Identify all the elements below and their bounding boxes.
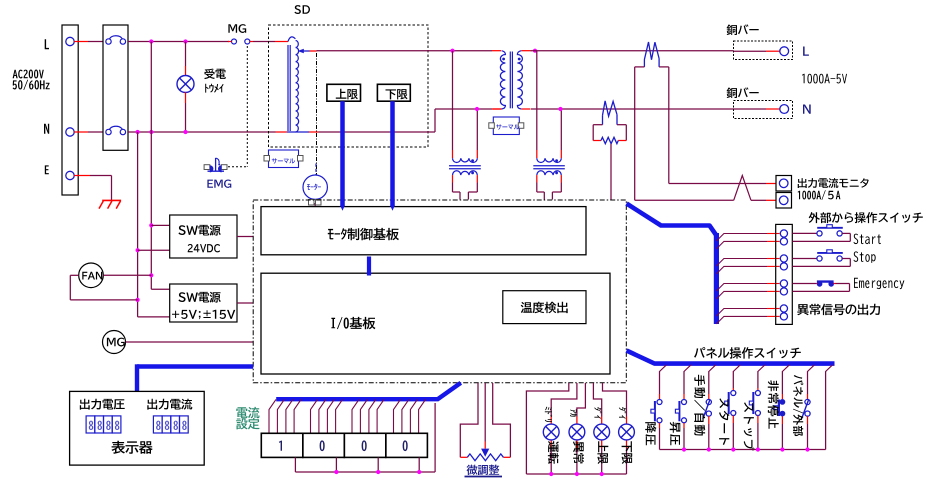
wire pot right	[493, 383, 511, 457]
wire PS2 output	[237, 302, 253, 304]
motor モーター	[303, 175, 327, 199]
node N junction B	[149, 130, 153, 134]
wire monitor upper	[669, 183, 766, 185]
node wiper-PT1	[450, 49, 454, 53]
wire vertical A from N bus	[137, 132, 139, 317]
panel common bus	[660, 449, 826, 451]
digit switch box 4	[386, 433, 428, 457]
control unit dashdot enclosure	[253, 200, 626, 383]
bus IO to digit switches	[276, 383, 461, 399]
wire pot left	[460, 383, 478, 457]
wire shunt tap to IO	[610, 144, 612, 200]
label Stop	[854, 251, 876, 263]
thermal サーマル at SD	[269, 150, 299, 168]
PT1 core	[449, 165, 481, 167]
switch ストップ	[757, 372, 759, 389]
wire N terminal to breaker	[74, 131, 88, 133]
wire FAN loop	[136, 298, 140, 302]
PT1 primary winding	[453, 158, 478, 162]
wire N out	[531, 108, 734, 110]
digit switch group wires	[269, 399, 276, 433]
copper bar terminal N	[734, 101, 793, 119]
switch パネル/外部	[807, 372, 809, 395]
signal arrow 上限 to control board	[340, 101, 345, 206]
potentiometer 微調整	[467, 454, 503, 461]
wire PS1 output	[237, 236, 253, 238]
digit switch common wires	[294, 457, 296, 472]
node wiper-PT2	[533, 49, 537, 53]
label ストップ	[744, 402, 755, 450]
label 外部から操作スイッチ	[809, 212, 923, 223]
wire E terminal to ground	[74, 175, 90, 177]
label L output	[803, 47, 809, 56]
wire F1 left leg to monitor	[634, 67, 636, 200]
lamp PL1 受電	[185, 42, 187, 67]
wire vertical B from L bus	[150, 42, 152, 290]
voltage transformer PT1 left leg	[452, 51, 454, 150]
interlock dotted link MG-EMG	[246, 46, 248, 167]
digit display 出力電流	[153, 416, 162, 433]
digit display 出力電圧	[86, 416, 95, 433]
label 微調整	[467, 465, 500, 476]
wire B to SW1 input	[149, 223, 153, 227]
transformer T1 primary	[500, 51, 505, 109]
ground E	[102, 199, 121, 201]
bus motor-IO	[367, 257, 371, 276]
label 受電	[204, 69, 226, 80]
PT1 secondary winding	[453, 171, 478, 175]
contact MG	[232, 39, 237, 44]
switch EMG	[204, 165, 210, 170]
wire N jog	[322, 131, 435, 133]
transformer T1 core	[509, 52, 511, 109]
lamp PL4 上限	[594, 424, 610, 440]
variac wiper arrow	[298, 49, 304, 54]
wire L terminal to breaker	[74, 41, 88, 43]
wire L bus breaker to MG contact	[128, 41, 229, 43]
wire MG coil to IO	[126, 341, 254, 343]
variac winding SD	[287, 45, 289, 131]
wire N bus breaker to SD	[128, 131, 276, 133]
label トウメイ	[205, 84, 223, 93]
label N output	[803, 105, 811, 114]
label 昇圧	[670, 422, 681, 445]
lamp PL2 運転	[543, 424, 559, 440]
digit switch box 3	[344, 433, 386, 457]
connector block external	[776, 224, 793, 324]
terminal E	[66, 171, 74, 179]
label 1000A-5V	[802, 74, 847, 84]
limit box 下限	[377, 84, 410, 101]
bus IO to panel switches	[627, 351, 835, 364]
switch Start	[792, 232, 817, 234]
PT2 right leg	[560, 109, 562, 150]
connector wires external	[716, 234, 767, 242]
breaker CB1	[103, 25, 128, 150]
label 表示器	[112, 441, 153, 454]
power supply PS2 SW電源 +5V ±15V	[170, 284, 237, 322]
shunt resistor R1	[593, 140, 601, 142]
crossover symbol	[734, 176, 751, 201]
PT2 primary winding	[537, 158, 562, 162]
terminal block TB1	[62, 25, 78, 195]
PT1 secondary leads	[452, 175, 454, 182]
PT2 secondary leads	[536, 175, 538, 182]
label 銅バー L	[727, 24, 759, 35]
PT2 core	[533, 165, 565, 167]
label Emergency	[854, 278, 904, 289]
switch Emergency	[792, 283, 816, 285]
label 異常信号の出力	[797, 304, 880, 316]
label 出力電圧	[80, 399, 125, 410]
label E	[45, 165, 49, 174]
breaker F2 on N output	[603, 101, 618, 116]
lamp bottoms to common	[550, 440, 552, 448]
label AC200V 50/60Hz	[13, 70, 44, 79]
PT2 secondary winding	[537, 171, 562, 175]
transformer SD dashed box	[269, 25, 429, 147]
power supply PS1 SW電源 24VDC	[170, 215, 237, 258]
display unit 表示器	[70, 391, 205, 465]
wire F1 right leg to monitor	[668, 67, 670, 184]
switch Stop	[792, 258, 817, 260]
wire FAN right	[149, 273, 153, 277]
switch 手動/自動	[708, 372, 710, 395]
label Start	[854, 234, 882, 245]
breaker contact N pole	[106, 129, 111, 134]
wire wiper output to T1	[317, 50, 493, 52]
node N junction A	[136, 130, 140, 134]
breaker F1 on L output	[644, 42, 659, 60]
wire MG contact to SD	[253, 41, 275, 43]
switch 降圧	[659, 372, 661, 395]
label 非常停止	[768, 380, 779, 429]
node PT1-N	[475, 107, 479, 111]
label 運転	[548, 441, 559, 464]
wire T1 secondary top	[521, 50, 530, 52]
pcb 温度検出	[503, 291, 586, 324]
label パネル/外部	[793, 375, 803, 436]
mech link motor dashdot	[316, 53, 318, 176]
wire T1 bottom stubs	[493, 108, 502, 110]
label 銅バー N	[727, 87, 759, 98]
label パネル操作スイッチ	[694, 347, 801, 359]
label 出力電流	[147, 399, 192, 410]
wire monitor lower	[635, 199, 734, 201]
wire pot wiper	[484, 383, 486, 442]
label MG	[228, 24, 246, 33]
panel switch branch wires	[660, 365, 667, 372]
switch スタート	[732, 372, 734, 389]
label ダイ2	[619, 407, 626, 419]
bus IO to external connector	[627, 204, 717, 236]
digit switch box 1	[261, 433, 303, 457]
label SD	[294, 5, 310, 14]
label 手動/自動	[694, 375, 705, 436]
bus IO to display	[137, 364, 253, 368]
label 異常	[573, 441, 584, 463]
label N	[44, 124, 49, 134]
lamp PL5 下限	[619, 424, 635, 440]
label スタート	[719, 398, 729, 445]
lamp PL3 異常	[569, 424, 585, 440]
terminal monitor 1	[776, 176, 792, 192]
lamp common bus	[526, 473, 626, 475]
label 電流設定	[236, 407, 259, 419]
label L	[45, 39, 49, 49]
switch 昇圧	[683, 372, 685, 395]
thermal サーマル below T1	[493, 117, 519, 135]
pcb I/O基板	[261, 273, 610, 374]
label アカ	[570, 409, 577, 416]
terminal N	[66, 128, 74, 136]
limit box 上限	[327, 84, 361, 101]
label ミドリ	[545, 407, 552, 422]
transformer T1 secondary	[517, 51, 522, 109]
node L-vertical junction	[149, 39, 153, 43]
label 1000A/5A	[798, 190, 841, 200]
label ダイ1	[594, 407, 601, 419]
wire SD bottom stub	[287, 131, 309, 133]
breaker contact L pole	[106, 39, 111, 44]
contactor coil MG	[103, 331, 126, 354]
label 出力電流モニタ	[798, 178, 869, 188]
signal arrow 下限 to control board	[390, 101, 395, 206]
node N lamp junction	[183, 130, 187, 134]
label 下限 lamp	[622, 441, 633, 464]
switch 非常停止	[781, 372, 783, 395]
terminal L	[66, 37, 74, 45]
label EMG	[207, 180, 231, 188]
wire A to SW1 input	[136, 248, 140, 252]
lamp group wires from IO	[526, 383, 568, 474]
digit switch box 2	[303, 433, 345, 457]
fan FAN1	[79, 263, 104, 288]
wire panel column 8	[825, 372, 827, 450]
voltage transformer PT2 left leg	[536, 51, 538, 150]
terminal monitor 2	[776, 193, 792, 209]
copper bar terminal L	[734, 41, 793, 60]
PT1 right leg	[476, 109, 478, 150]
label 降圧	[645, 422, 656, 445]
node L-lamp junction	[183, 39, 187, 43]
node PT2-N	[558, 107, 562, 111]
pcb モータ制御基板	[261, 207, 586, 255]
label 上限 lamp	[597, 441, 608, 464]
